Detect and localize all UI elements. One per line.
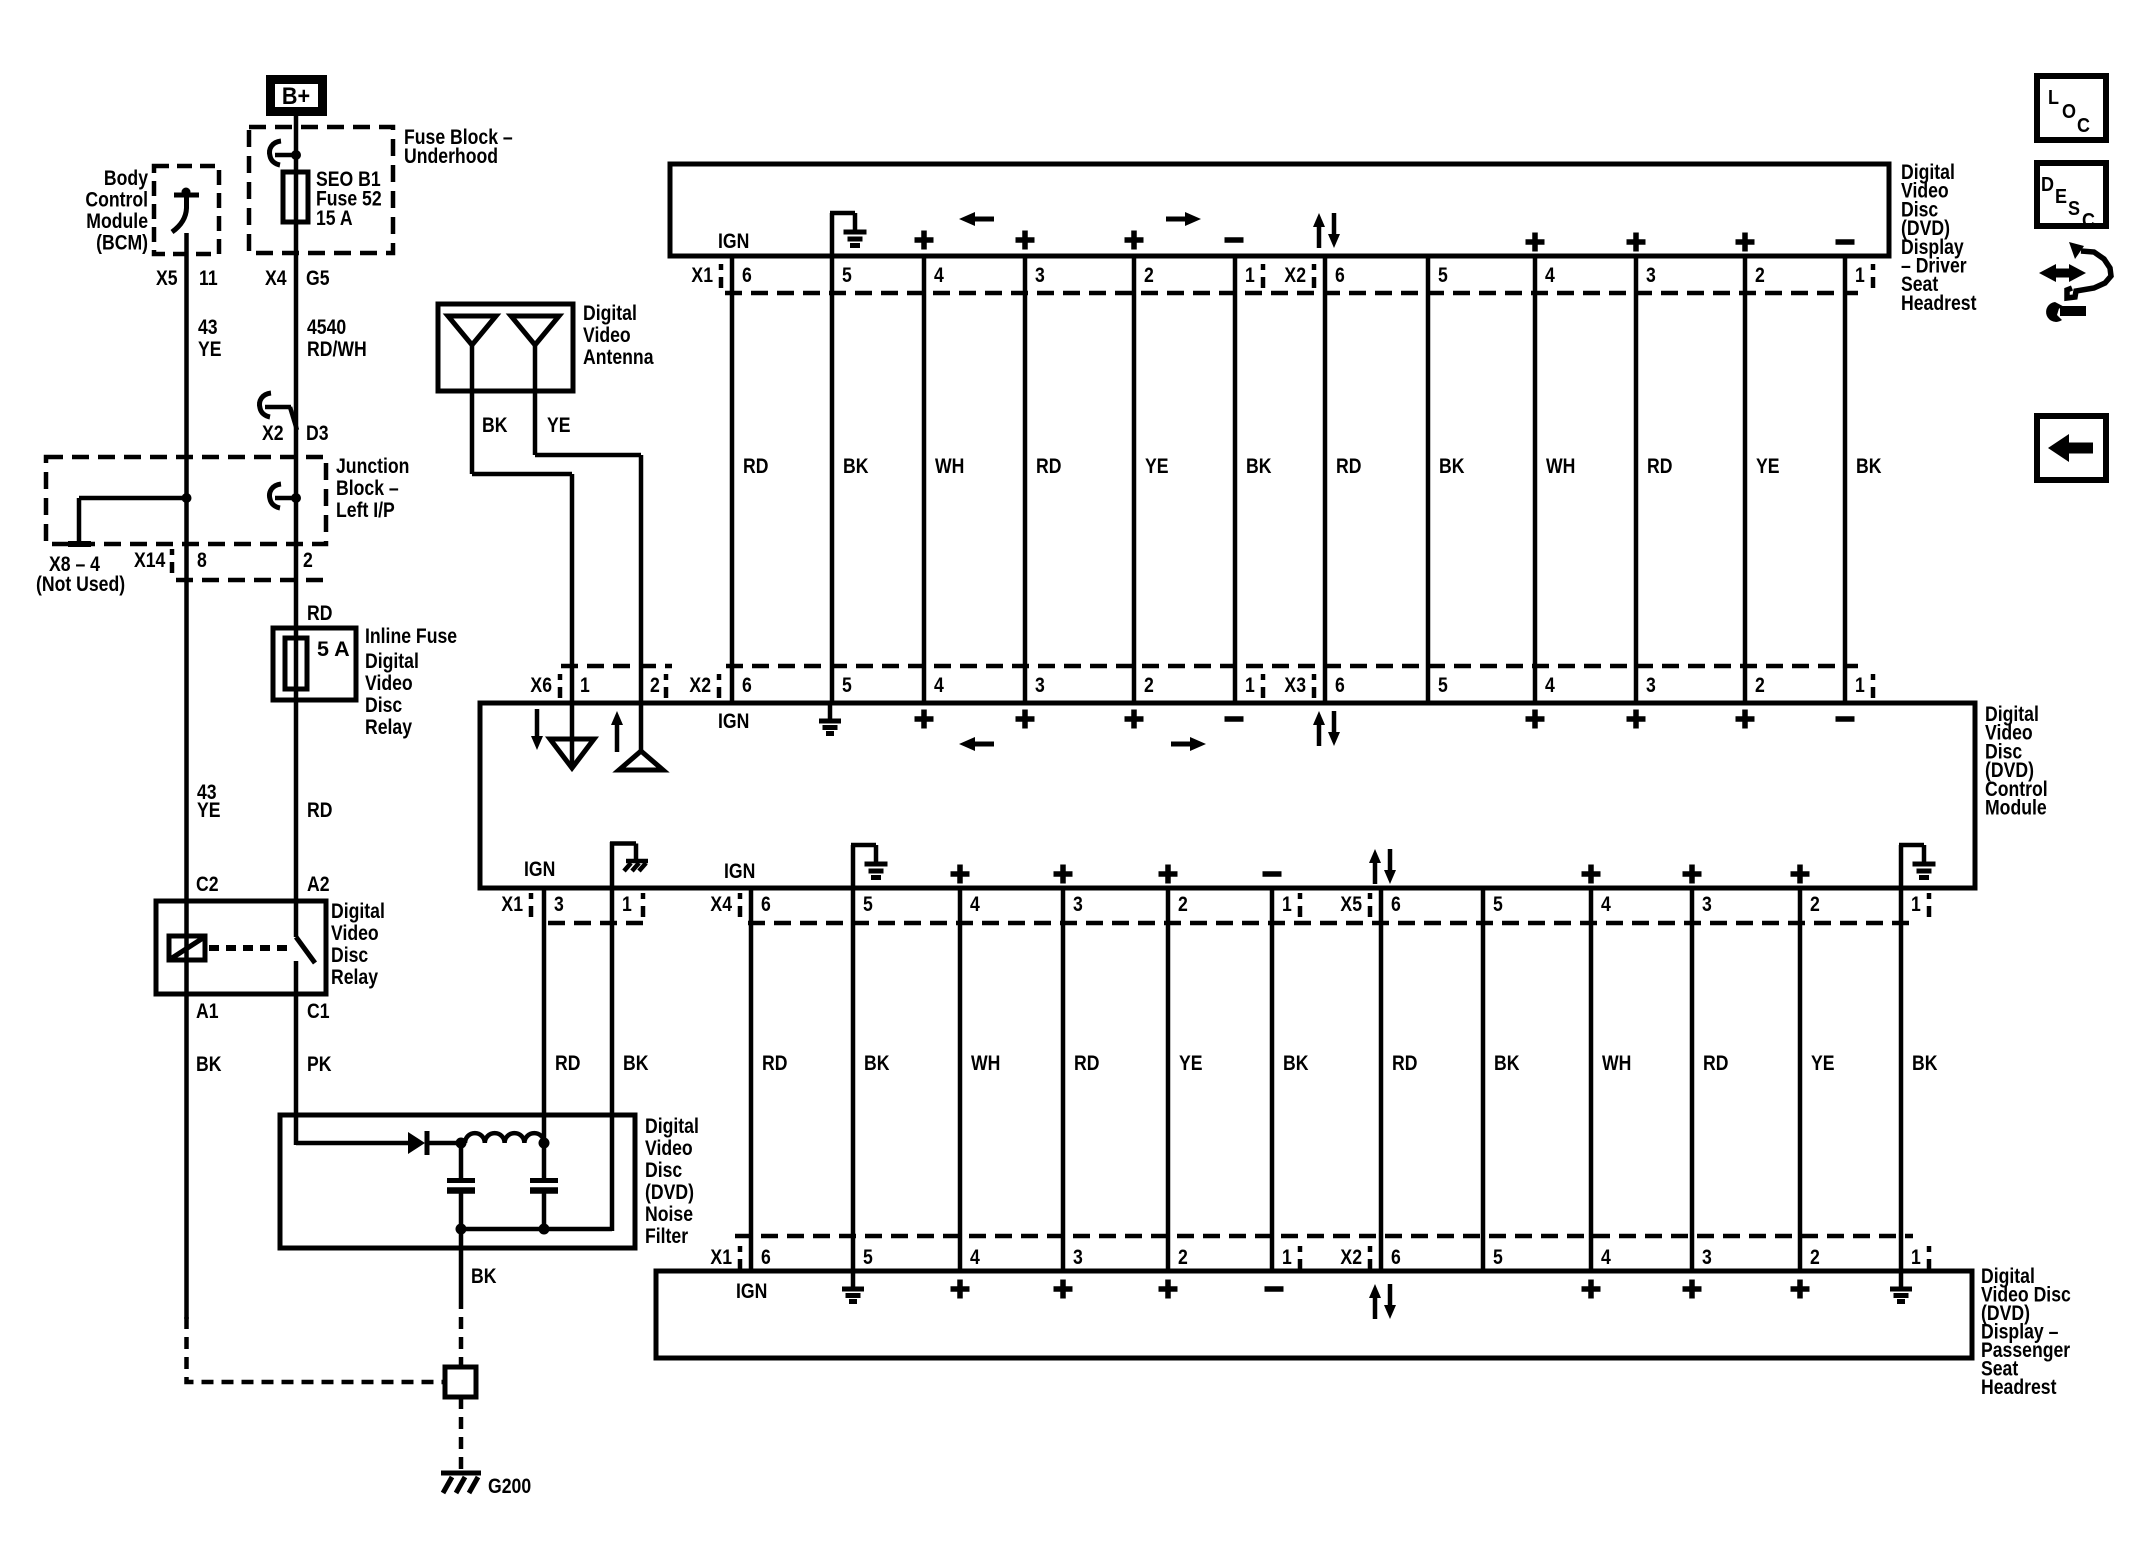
svg-text:BK: BK — [1283, 1051, 1309, 1075]
digital video disc display passenger seat headrest box — [656, 1271, 1972, 1358]
ground G200 label — [488, 1474, 531, 1498]
IGN label control X4-6 — [724, 859, 755, 883]
junction block internal wire to X8-4 — [79, 496, 186, 501]
connector dashed line row C X1 — [548, 921, 643, 926]
in-line connector X2/D3 on RD/WH wire — [265, 405, 291, 410]
icon LOC letters — [2048, 87, 2059, 109]
IGN label passenger X1-6 — [736, 1279, 767, 1303]
svg-text:BK: BK — [1439, 454, 1465, 478]
svg-text:WH: WH — [1546, 454, 1575, 478]
svg-text:RD: RD — [1392, 1051, 1417, 1075]
connector bracket rowB-0b — [664, 674, 669, 680]
connector bracket rowD-2 — [1298, 1246, 1303, 1252]
svg-text:1: 1 — [580, 673, 590, 697]
svg-text:X2: X2 — [689, 673, 711, 697]
svg-text:(DVD): (DVD) — [645, 1180, 694, 1204]
svg-text:5: 5 — [842, 673, 852, 697]
pin label A1 — [196, 999, 219, 1023]
svg-text:Digital: Digital — [331, 899, 385, 923]
svg-text:2: 2 — [1178, 1245, 1188, 1269]
pin label X5 — [156, 266, 178, 290]
junction block - left I/P dashed box — [46, 457, 326, 544]
svg-text:6: 6 — [742, 263, 752, 287]
svg-text:Module: Module — [1985, 796, 2047, 820]
svg-text:Noise: Noise — [645, 1202, 693, 1226]
svg-text:3: 3 — [1702, 892, 1712, 916]
svg-text:Digital: Digital — [645, 1114, 699, 1138]
plus display X2-2 — [1736, 233, 1755, 252]
icon routing outline — [2067, 251, 2111, 298]
wire BK control module X4-5 to passenger display — [851, 890, 856, 1269]
pin numbers row B — [742, 673, 752, 697]
pin label X4 — [265, 266, 287, 290]
svg-text:4: 4 — [1545, 263, 1555, 287]
svg-text:YE: YE — [547, 413, 571, 437]
svg-text:2: 2 — [303, 548, 313, 572]
pin row X2 label (passenger) — [1340, 1245, 1362, 1269]
icon double arrow — [2053, 269, 2072, 278]
plus display X1-4 — [915, 231, 934, 250]
pin row X6 label — [530, 673, 552, 697]
connector bracket rowD-1 — [738, 1246, 743, 1252]
svg-text:RD: RD — [307, 798, 332, 822]
pin label 2 (junction block) — [303, 548, 313, 572]
antenna send symbol X6-2 — [615, 725, 620, 752]
svg-text:5: 5 — [1493, 1245, 1503, 1269]
svg-text:X1: X1 — [691, 263, 713, 287]
svg-text:B+: B+ — [282, 82, 310, 109]
pin row X5 label — [1340, 892, 1362, 916]
svg-text:2: 2 — [1810, 892, 1820, 916]
minus passenger X1-1 — [1265, 1286, 1284, 1292]
connector bracket rowC-4 — [1927, 893, 1932, 899]
up-down arrows control X3-6 — [1317, 723, 1322, 746]
connector bracket rowD-3 — [1368, 1246, 1373, 1252]
svg-text:3: 3 — [1646, 263, 1656, 287]
connector dashed line row B main — [726, 664, 1858, 669]
antenna receive symbol X6-1 — [535, 709, 540, 737]
relay caption — [331, 899, 385, 923]
svg-text:4: 4 — [970, 892, 980, 916]
plus control X4-3 — [1054, 865, 1073, 884]
wire label 43 YE lower — [197, 780, 217, 804]
wire dashed splice to G200 — [459, 1397, 464, 1469]
svg-text:G5: G5 — [306, 266, 330, 290]
wire YE control module X4-2 to passenger display — [1166, 890, 1171, 1269]
wire BK display X2-1 to control module — [1843, 258, 1848, 701]
svg-text:15 A: 15 A — [316, 206, 353, 230]
wire BK display X2-5 to control module — [1426, 258, 1431, 701]
svg-text:BK: BK — [843, 454, 869, 478]
plus passenger X2-4 — [1582, 1280, 1601, 1299]
svg-text:4: 4 — [1601, 892, 1611, 916]
svg-text:4: 4 — [934, 263, 944, 287]
connector bracket rowC-1 — [738, 893, 743, 899]
svg-text:X14: X14 — [134, 548, 165, 572]
IGN label control X2-6 — [718, 709, 749, 733]
wire labels bottom half — [762, 1051, 787, 1075]
svg-text:A1: A1 — [196, 999, 219, 1023]
svg-text:X2: X2 — [1284, 263, 1306, 287]
svg-text:3: 3 — [554, 892, 564, 916]
junction dot C1 bottom — [456, 1224, 467, 1235]
svg-text:C: C — [2082, 210, 2095, 232]
fuse SEO B1 Fuse 52 15 A — [283, 172, 308, 222]
pin label (Not Used) — [36, 572, 125, 596]
svg-text:BK: BK — [1856, 454, 1882, 478]
svg-text:1: 1 — [1282, 1245, 1292, 1269]
svg-text:IGN: IGN — [718, 229, 749, 253]
wire diode to inductor junction — [425, 1141, 465, 1146]
display driver caption — [1901, 160, 1955, 184]
noise filter caption — [645, 1114, 699, 1138]
svg-text:Left I/P: Left I/P — [336, 498, 395, 522]
svg-text:RD/WH: RD/WH — [307, 337, 367, 361]
icon back arrow box — [2037, 416, 2106, 480]
svg-text:5: 5 — [863, 892, 873, 916]
minus display X1-1 — [1225, 237, 1244, 243]
icon DESC box — [2037, 163, 2106, 226]
svg-text:3: 3 — [1035, 263, 1045, 287]
wire BK control module X5-1 to passenger display — [1899, 890, 1904, 1269]
svg-text:4: 4 — [934, 673, 944, 697]
inline fuse caption — [365, 624, 457, 648]
svg-text:43: 43 — [198, 315, 218, 339]
pin row X1 label (display) — [691, 263, 713, 287]
connector dashed line row A — [725, 291, 1858, 296]
svg-text:WH: WH — [1602, 1051, 1631, 1075]
svg-text:4: 4 — [1601, 1245, 1611, 1269]
plus control X3-3 — [1627, 710, 1646, 729]
pin row X1 label (control bottom) — [501, 892, 523, 916]
icon DESC letters — [2041, 174, 2054, 196]
svg-text:2: 2 — [1810, 1245, 1820, 1269]
plus control X2-4 — [915, 710, 934, 729]
svg-text:BK: BK — [471, 1264, 497, 1288]
svg-text:YE: YE — [1811, 1051, 1835, 1075]
plus control X5-3 — [1683, 865, 1702, 884]
svg-text:BK: BK — [196, 1052, 222, 1076]
junction dot C2 bottom — [539, 1224, 550, 1235]
inline fuse element — [285, 638, 307, 689]
plus display X1-2 — [1125, 231, 1144, 250]
pin label G5 — [306, 266, 330, 290]
svg-text:5 A: 5 A — [317, 637, 350, 661]
svg-text:X5: X5 — [1340, 892, 1362, 916]
connector bracket rowB-3 — [1312, 674, 1317, 680]
svg-text:G200: G200 — [488, 1474, 531, 1498]
pin row X2 label (control) — [689, 673, 711, 697]
svg-text:Disc: Disc — [365, 693, 402, 717]
svg-text:1: 1 — [1855, 673, 1865, 697]
svg-text:3: 3 — [1646, 673, 1656, 697]
svg-text:11: 11 — [199, 266, 218, 290]
svg-text:Module: Module — [86, 209, 148, 233]
junction dot A — [456, 1138, 467, 1149]
svg-text:3: 3 — [1702, 1245, 1712, 1269]
svg-text:Headrest: Headrest — [1981, 1375, 2057, 1399]
svg-text:C2: C2 — [196, 872, 219, 896]
plus control X2-2 — [1125, 710, 1144, 729]
connector terminal at fuse block input — [275, 153, 296, 158]
junction splice dot — [182, 493, 192, 503]
svg-text:2: 2 — [1755, 263, 1765, 287]
ground symbol control X5-1 — [1899, 845, 1904, 888]
svg-text:5: 5 — [863, 1245, 873, 1269]
wire - BK dashed down and right to splice — [187, 1317, 448, 1382]
svg-text:X3: X3 — [1284, 673, 1306, 697]
wire label 43 YE upper — [198, 315, 218, 339]
svg-text:X1: X1 — [501, 892, 523, 916]
fuse block label — [404, 125, 513, 149]
svg-text:3: 3 — [1073, 892, 1083, 916]
wire label 4540 RD/WH — [307, 315, 346, 339]
svg-text:8: 8 — [197, 548, 207, 572]
pin numbers row A — [742, 263, 752, 287]
svg-text:YE: YE — [1756, 454, 1780, 478]
svg-text:6: 6 — [761, 1245, 771, 1269]
svg-text:YE: YE — [197, 798, 221, 822]
ground symbol passenger X1-5 — [851, 1271, 856, 1287]
svg-text:YE: YE — [1179, 1051, 1203, 1075]
wire WH control module X4-4 to passenger display — [958, 890, 963, 1269]
svg-text:L: L — [2048, 87, 2059, 109]
svg-text:1: 1 — [1282, 892, 1292, 916]
svg-text:WH: WH — [971, 1051, 1000, 1075]
splice connector box — [445, 1367, 476, 1397]
filter ground rail — [461, 1227, 612, 1232]
minus control X2-1 — [1225, 716, 1244, 722]
svg-text:BK: BK — [1246, 454, 1272, 478]
wire BK dashed to splice — [459, 1297, 464, 1369]
body control module dashed box — [154, 166, 219, 254]
plus control X2-3 — [1016, 710, 1035, 729]
svg-text:Relay: Relay — [331, 965, 378, 989]
plus control X4-4 — [951, 865, 970, 884]
relay switch blade — [296, 937, 315, 963]
connector dashed line row C main — [748, 921, 1913, 926]
svg-text:RD: RD — [1074, 1051, 1099, 1075]
B+ label — [282, 82, 310, 109]
plus display X2-4 — [1526, 233, 1545, 252]
svg-text:1: 1 — [1855, 263, 1865, 287]
svg-text:IGN: IGN — [736, 1279, 767, 1303]
wire 4540 RD/WH - B+ feed through fuse to relay A2 — [294, 114, 299, 937]
arrow right display — [1166, 217, 1188, 222]
svg-text:IGN: IGN — [724, 859, 755, 883]
arrow left display — [972, 217, 994, 222]
plus passenger X1-2 — [1159, 1280, 1178, 1299]
plus display X2-3 — [1627, 233, 1646, 252]
wire WH display X1-4 to control module — [922, 258, 927, 701]
minus display X2-1 — [1836, 239, 1855, 245]
connector bracket rowD-4 — [1927, 1246, 1932, 1252]
fuse SEO B1 value label — [316, 167, 381, 191]
connector bracket rowC-3 — [1368, 893, 1373, 899]
pin label X14 — [134, 548, 165, 572]
svg-text:BK: BK — [1494, 1051, 1520, 1075]
plus control X4-2 — [1159, 865, 1178, 884]
IGN label display driver — [718, 229, 749, 253]
svg-text:5: 5 — [842, 263, 852, 287]
svg-text:6: 6 — [761, 892, 771, 916]
svg-text:BK: BK — [1912, 1051, 1938, 1075]
svg-text:X4: X4 — [710, 892, 732, 916]
svg-text:Control: Control — [85, 188, 148, 212]
relay dashed actuator link — [209, 945, 291, 951]
svg-text:Video: Video — [583, 323, 631, 347]
wire label RD below inline fuse — [307, 798, 332, 822]
svg-text:6: 6 — [1335, 673, 1345, 697]
control module caption — [1985, 702, 2039, 726]
svg-text:Relay: Relay — [365, 715, 412, 739]
wire RD control module X4-3 to passenger display — [1061, 890, 1066, 1269]
svg-text:X1: X1 — [710, 1245, 732, 1269]
svg-text:RD: RD — [1703, 1051, 1728, 1075]
connector bracket rowA-2 — [1261, 264, 1266, 270]
connector bracket X14 — [170, 549, 175, 555]
wire label YE (antenna) — [547, 413, 571, 437]
wire - relay A1 BK output — [184, 994, 189, 1319]
pin label 11 — [199, 266, 218, 290]
svg-text:RD: RD — [762, 1051, 787, 1075]
wire label RD above inline fuse — [307, 601, 332, 625]
svg-text:6: 6 — [1335, 263, 1345, 287]
connector bracket rowC-2 — [1298, 893, 1303, 899]
svg-text:2: 2 — [1144, 263, 1154, 287]
svg-text:RD: RD — [307, 601, 332, 625]
plus control X5-2 — [1791, 865, 1810, 884]
capacitor C2 in noise filter — [542, 1143, 547, 1178]
connector bracket rowC-0 — [529, 893, 534, 899]
svg-text:Disc: Disc — [645, 1158, 682, 1182]
up-down arrows passenger X2-6 — [1373, 1296, 1378, 1319]
svg-text:Junction: Junction — [336, 454, 409, 478]
svg-text:Digital: Digital — [365, 649, 419, 673]
up-down arrows display X2-6 — [1317, 225, 1322, 248]
junction block label — [336, 454, 409, 478]
inductor L1 in noise filter — [465, 1133, 544, 1143]
plus control X3-2 — [1736, 710, 1755, 729]
pin row X3 label (control) — [1284, 673, 1306, 697]
connector bracket rowB-1 — [717, 674, 722, 680]
icon back arrow — [2068, 443, 2093, 454]
inline fuse 5 A label — [317, 637, 350, 661]
pin numbers row D — [761, 1245, 771, 1269]
svg-text:RD: RD — [743, 454, 768, 478]
plus passenger X2-2 — [1791, 1280, 1810, 1299]
plus control X3-4 — [1526, 710, 1545, 729]
diode CR1 in noise filter — [408, 1132, 425, 1154]
pin row X4 label — [710, 892, 732, 916]
connector bracket rowB-0 — [558, 674, 563, 680]
svg-text:Disc: Disc — [331, 943, 368, 967]
svg-text:6: 6 — [1391, 1245, 1401, 1269]
svg-text:C: C — [2077, 115, 2090, 137]
ground symbol control X2-5 — [828, 703, 833, 719]
svg-text:(Not Used): (Not Used) — [36, 572, 125, 596]
plus passenger X2-3 — [1683, 1280, 1702, 1299]
minus control X3-1 — [1836, 716, 1855, 722]
svg-text:1: 1 — [1911, 1245, 1921, 1269]
digital video antenna box — [438, 304, 573, 391]
arrow left control top — [972, 742, 994, 747]
wire YE antenna lead — [533, 391, 538, 455]
relay coil — [169, 936, 205, 960]
wire BK control module X4-1 to passenger display — [1270, 890, 1275, 1269]
fuse block - underhood dashed box — [249, 127, 393, 253]
wire label BK (X1-1) — [623, 1051, 649, 1075]
svg-text:X2: X2 — [262, 421, 284, 445]
svg-text:1: 1 — [1911, 892, 1921, 916]
svg-text:6: 6 — [742, 673, 752, 697]
chassis ground symbol control X1-1 — [610, 842, 615, 888]
arrow right control top — [1171, 742, 1193, 747]
wire BK control module X5-5 to passenger display — [1481, 890, 1486, 1269]
digital video disc control module box — [480, 703, 1975, 888]
connector bracket rowA-1 — [719, 264, 724, 270]
antenna element right — [511, 316, 559, 345]
wire RD display X1-3 to control module — [1023, 258, 1028, 701]
wire YE display X2-2 to control module — [1743, 258, 1748, 701]
svg-text:A2: A2 — [307, 872, 330, 896]
antenna label — [583, 301, 637, 325]
svg-text:D: D — [2041, 174, 2054, 196]
svg-text:4540: 4540 — [307, 315, 346, 339]
wire label BK (filter output) — [471, 1264, 497, 1288]
svg-text:5: 5 — [1438, 263, 1448, 287]
svg-text:Headrest: Headrest — [1901, 291, 1977, 315]
wire BK filter output — [459, 1229, 464, 1297]
wire RD control module X5-3 to passenger display — [1690, 890, 1695, 1269]
icon LOC box — [2037, 76, 2106, 140]
capacitor C1 in noise filter — [459, 1143, 464, 1178]
connector bracket rowB-4 — [1871, 674, 1876, 680]
svg-text:D3: D3 — [306, 421, 329, 445]
connector bracket rowB-2 — [1261, 674, 1266, 680]
svg-text:Inline Fuse: Inline Fuse — [365, 624, 457, 648]
svg-text:IGN: IGN — [718, 709, 749, 733]
svg-text:IGN: IGN — [524, 857, 555, 881]
svg-text:RD: RD — [1036, 454, 1061, 478]
connector terminal D3-2 in junction block — [275, 496, 296, 501]
svg-text:5: 5 — [1493, 892, 1503, 916]
pin label C2 — [196, 872, 219, 896]
pin row X1 label (passenger) — [710, 1245, 732, 1269]
up-down arrows control X5-6 — [1373, 861, 1378, 884]
wire BK display X1-5 to control module — [830, 258, 835, 701]
connector dashed line row B X6 — [561, 664, 672, 669]
wire label BK (antenna) — [482, 413, 508, 437]
svg-text:(BCM): (BCM) — [96, 231, 148, 255]
wire RD display X1-6 to control module — [730, 258, 735, 701]
display passenger caption — [1981, 1264, 2035, 1288]
svg-text:6: 6 — [1391, 892, 1401, 916]
junction block connector dashed line — [176, 578, 324, 583]
svg-text:WH: WH — [935, 454, 964, 478]
wire label RD (X1-3) — [555, 1051, 580, 1075]
plus passenger X1-4 — [951, 1280, 970, 1299]
svg-text:PK: PK — [307, 1052, 332, 1076]
pin 1 X6 — [580, 673, 590, 697]
connector bracket rowC-0b — [641, 893, 646, 899]
connector bracket rowA-4 — [1871, 264, 1876, 270]
digital video disc display driver seat headrest box — [670, 164, 1889, 256]
wire YE display X1-2 to control module — [1132, 258, 1137, 701]
wire RD control X1-3 to noise filter — [542, 890, 547, 1145]
ground symbol display driver X1-5 — [830, 213, 835, 256]
wire BK antenna lead — [470, 391, 475, 474]
